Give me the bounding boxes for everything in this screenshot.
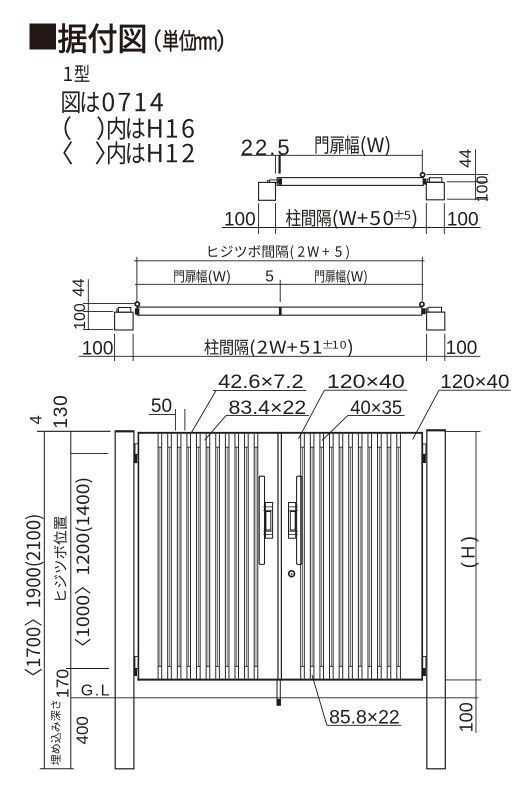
- svg-text:G.L: G.L: [81, 683, 111, 700]
- svg-text:44: 44: [456, 149, 475, 168]
- svg-text:100: 100: [475, 176, 492, 203]
- svg-text:100: 100: [72, 303, 89, 330]
- svg-text:120×40: 120×40: [440, 372, 509, 393]
- svg-text:170: 170: [53, 669, 73, 698]
- svg-text:100: 100: [224, 209, 256, 230]
- svg-text:5: 5: [265, 268, 274, 285]
- svg-text:83.4×22: 83.4×22: [229, 398, 307, 419]
- svg-text:100: 100: [82, 338, 114, 359]
- svg-text:120×40: 120×40: [327, 372, 405, 393]
- svg-text:100: 100: [446, 338, 478, 359]
- svg-text:50: 50: [151, 396, 172, 417]
- svg-text:100: 100: [456, 702, 476, 732]
- svg-text:130: 130: [51, 394, 72, 428]
- svg-text:44: 44: [70, 278, 88, 296]
- svg-text:4: 4: [27, 415, 45, 424]
- svg-text:(H): (H): [458, 533, 478, 569]
- svg-text:100: 100: [447, 209, 479, 230]
- svg-text:40×35: 40×35: [350, 398, 402, 419]
- svg-text:42.6×7.2: 42.6×7.2: [218, 372, 304, 393]
- svg-text:400: 400: [73, 716, 92, 744]
- svg-text:22.5: 22.5: [241, 135, 292, 160]
- svg-text:85.8×22: 85.8×22: [329, 707, 400, 728]
